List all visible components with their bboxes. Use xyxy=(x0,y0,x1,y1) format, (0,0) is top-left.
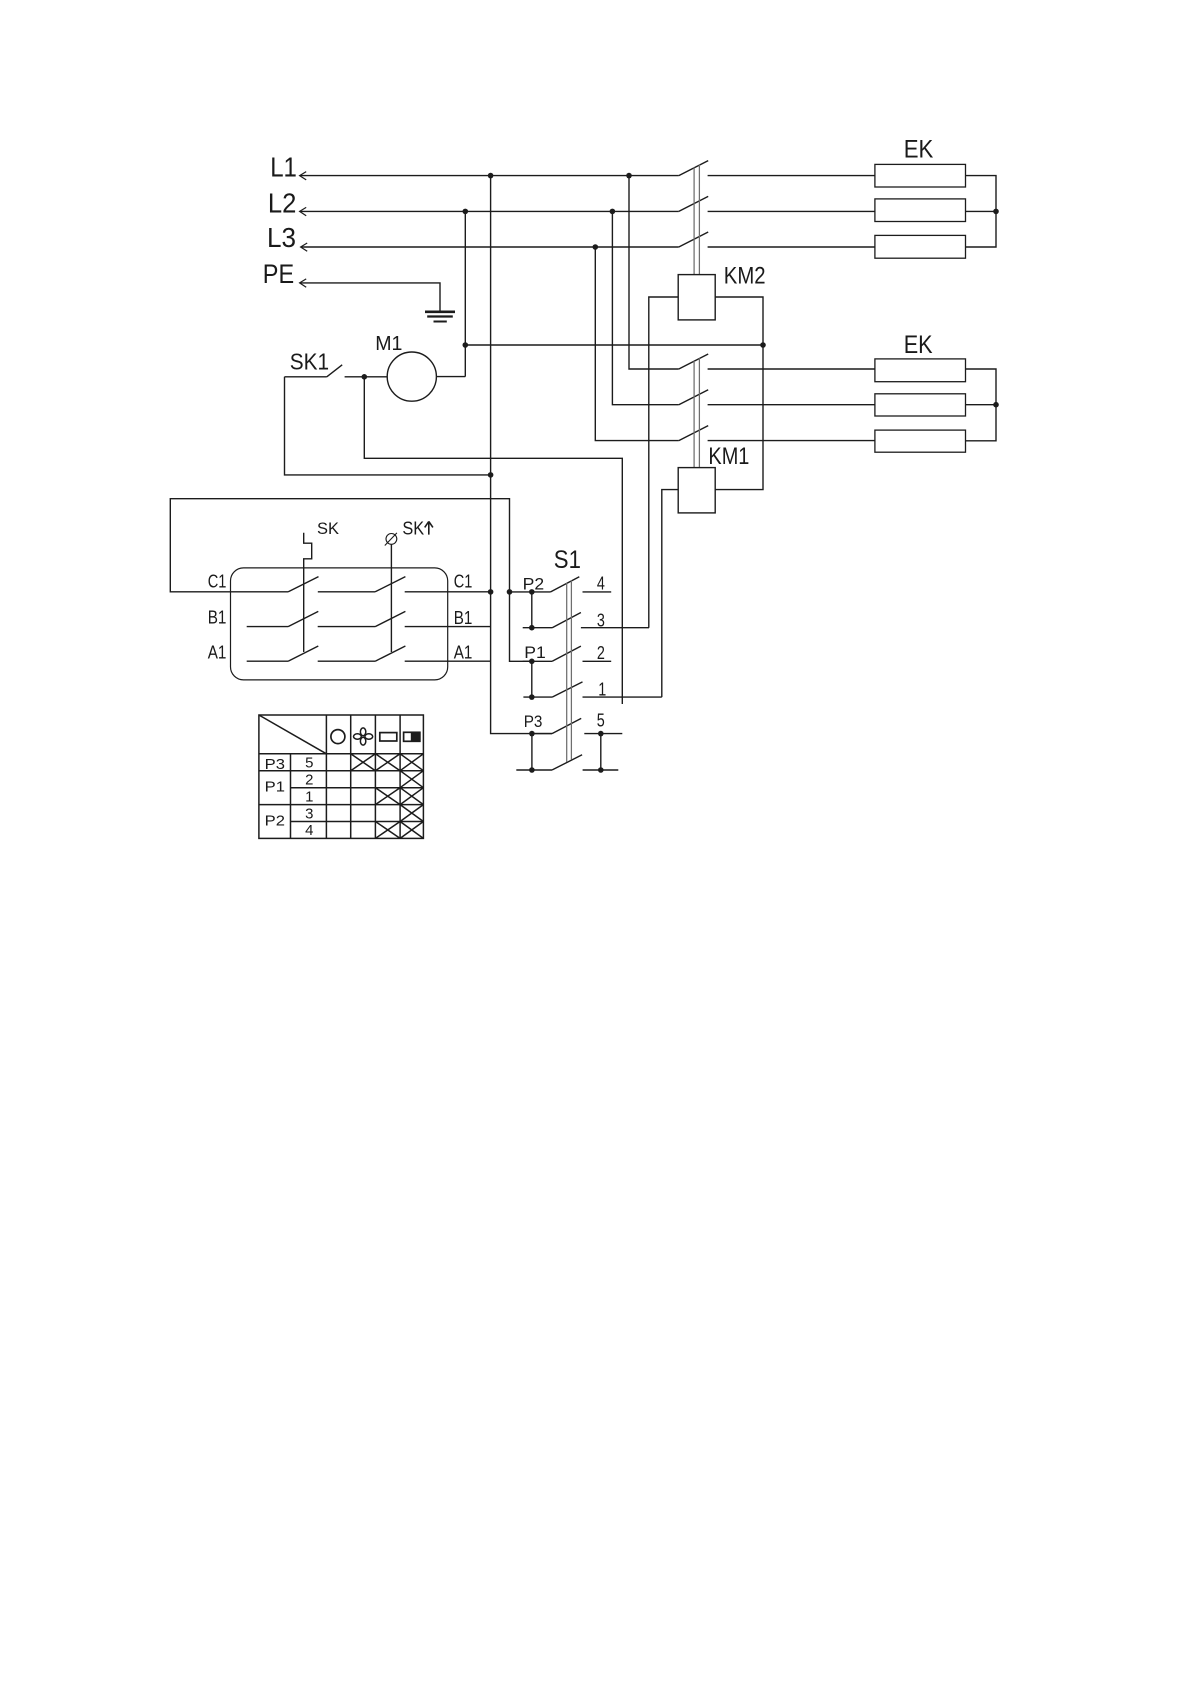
symbol half grill fill xyxy=(411,732,421,742)
symbol half grill rect xyxy=(404,732,420,741)
heater EK2 resistor 3 xyxy=(875,430,966,452)
svg-text:3: 3 xyxy=(597,611,605,631)
wire EK2 right bus xyxy=(966,369,997,441)
node P2 feed xyxy=(507,589,513,595)
svg-text:EK: EK xyxy=(904,136,934,164)
wire SK1 node to S1 link xyxy=(364,377,622,704)
wire M1 to L2 drop xyxy=(436,376,465,378)
wire SK1 left leg xyxy=(285,377,491,475)
svg-text:SK: SK xyxy=(317,519,340,538)
svg-text:A1: A1 xyxy=(454,642,473,662)
wire L1 drop to KM1 row1 xyxy=(629,176,679,369)
svg-text:4: 4 xyxy=(305,822,313,839)
ground symbol xyxy=(425,310,455,313)
node SK1 feed xyxy=(488,472,494,478)
node L3 arrowhead xyxy=(301,243,308,251)
svg-text:M1: M1 xyxy=(375,333,402,355)
wire L2 drop to M1 xyxy=(464,211,466,376)
node SK1-M1 xyxy=(362,374,368,380)
heater EK1 resistor 1 xyxy=(875,164,966,187)
node C1 right xyxy=(488,589,494,595)
svg-text:L2: L2 xyxy=(268,188,297,219)
node EK2 bus xyxy=(993,402,999,408)
contactor coil KM1 xyxy=(678,468,715,513)
KM1 mechanical link xyxy=(694,358,699,467)
svg-text:C1: C1 xyxy=(208,572,227,592)
node P1 tie top xyxy=(529,659,535,665)
contactor KM1 contact row3 xyxy=(679,426,875,441)
node coil return left xyxy=(463,342,469,348)
svg-text:5: 5 xyxy=(597,711,605,731)
svg-text:P1: P1 xyxy=(265,779,285,796)
motor M1 circle xyxy=(387,352,436,401)
wire L1 feed line xyxy=(300,175,679,177)
symbol lamp off circle xyxy=(331,730,345,744)
wire KM1 coil left xyxy=(662,490,678,697)
wire KM2 coil right xyxy=(715,297,763,490)
svg-text:L1: L1 xyxy=(270,152,297,183)
svg-text:SK1: SK1 xyxy=(290,349,329,375)
thermostat contact A1 xyxy=(247,646,491,661)
svg-text:3: 3 xyxy=(305,805,313,822)
thermostat block outline xyxy=(231,568,448,680)
S1 mechanical link xyxy=(567,581,572,763)
contactor KM2 contact row2 xyxy=(679,196,875,211)
heater EK2 resistor 2 xyxy=(875,394,966,416)
svg-text:B1: B1 xyxy=(208,607,227,627)
switch S1 contact 1 xyxy=(523,682,661,697)
svg-text:P2: P2 xyxy=(265,812,285,829)
node L1 arrowhead xyxy=(300,172,307,180)
node L2-M1 xyxy=(463,209,469,215)
node coil return right xyxy=(760,342,766,348)
svg-text:KM1: KM1 xyxy=(708,443,749,470)
wire L2 drop to KM1 row2 xyxy=(612,211,678,404)
wire PE feed line xyxy=(300,283,440,312)
heater EK2 resistor 1 xyxy=(875,359,966,382)
switch S1 contact 3 xyxy=(523,613,649,628)
contactor coil KM2 xyxy=(678,275,715,320)
heater EK1 resistor 3 xyxy=(875,235,966,258)
switch S1 pole P1 contact 2 xyxy=(523,646,612,661)
svg-text:P3: P3 xyxy=(524,712,543,731)
wire L2 feed line xyxy=(300,210,679,212)
svg-text:P3: P3 xyxy=(265,756,285,773)
junction dots xyxy=(362,173,999,773)
S1 tie 5 fixed bottom xyxy=(600,734,602,770)
svg-text:P2: P2 xyxy=(523,575,545,594)
KM2 mechanical link xyxy=(694,165,699,275)
table diagonal xyxy=(259,715,327,754)
svg-text:A1: A1 xyxy=(208,642,227,662)
switch S1 bottom contact xyxy=(516,755,618,770)
svg-text:SK: SK xyxy=(402,519,424,539)
svg-text:2: 2 xyxy=(597,643,605,663)
node EK1 bus xyxy=(993,209,999,215)
node PE arrowhead xyxy=(300,279,307,287)
thermostat contact C1 xyxy=(231,577,491,592)
node P3 tie bottom xyxy=(529,767,535,773)
svg-text:C1: C1 xyxy=(454,572,473,592)
svg-text:L3: L3 xyxy=(267,222,296,253)
svg-text:2: 2 xyxy=(305,772,313,789)
svg-text:S1: S1 xyxy=(554,546,581,574)
svg-text:PE: PE xyxy=(263,259,294,289)
node L1-main xyxy=(488,173,494,179)
wire L1 drop to SK1/C1/P3 (main vertical) xyxy=(491,176,552,734)
node L2-KM1 xyxy=(610,209,616,215)
wire coil return bus xyxy=(465,344,763,346)
contactor KM1 contact row2 xyxy=(679,390,875,405)
node tie 1 xyxy=(529,694,535,700)
symbol fan xyxy=(354,728,373,745)
table frame xyxy=(259,715,424,838)
svg-text:EK: EK xyxy=(904,331,933,359)
S1 tie P2-3 xyxy=(531,592,533,628)
svg-text:KM2: KM2 xyxy=(724,263,766,290)
svg-text:5: 5 xyxy=(305,755,313,772)
wire KM2 coil left xyxy=(649,297,678,628)
node 5 tie top xyxy=(598,731,604,737)
contactor KM1 contact row1 xyxy=(679,354,875,369)
node L1-KM1 xyxy=(626,173,632,179)
symbol grill rect xyxy=(380,733,397,741)
switch S1 pole P2 contact 4 xyxy=(510,577,612,592)
wire C1 left loop to P2/P1 poles xyxy=(170,499,532,662)
switch table S1 positions xyxy=(259,715,424,838)
node P3 tie top xyxy=(529,731,535,737)
node L3-KM1 xyxy=(593,244,599,250)
thermostat contact B1 xyxy=(247,611,491,626)
svg-text:1: 1 xyxy=(598,680,606,700)
table column lines xyxy=(291,715,401,838)
contactor KM2 contact row1 xyxy=(679,161,875,176)
svg-text:4: 4 xyxy=(597,574,605,594)
switch S1 pole P3 contact 5 xyxy=(532,718,622,733)
node L2 arrowhead xyxy=(300,207,307,215)
svg-text:B1: B1 xyxy=(454,608,473,628)
svg-text:1: 1 xyxy=(305,788,313,805)
S1 tie P3 bottom xyxy=(531,734,533,770)
contactor KM2 contact row3 xyxy=(679,232,875,247)
X marks xyxy=(351,754,376,771)
S1 tie P1-1 xyxy=(531,661,533,697)
wire EK1 right bus xyxy=(966,176,997,247)
SK-up actuator symbol xyxy=(386,534,397,545)
node P2 tie top xyxy=(529,589,535,595)
wire L3 drop to KM1 row3 xyxy=(595,247,679,441)
table row lines xyxy=(259,754,424,822)
svg-text:P1: P1 xyxy=(524,643,546,662)
node tie 3 xyxy=(529,625,535,631)
node 5 tie bottom xyxy=(598,767,604,773)
SK actuator symbol xyxy=(304,533,312,652)
switch SK1 xyxy=(285,365,388,377)
heater EK1 resistor 2 xyxy=(875,199,966,222)
wire L3 feed line xyxy=(301,246,679,248)
